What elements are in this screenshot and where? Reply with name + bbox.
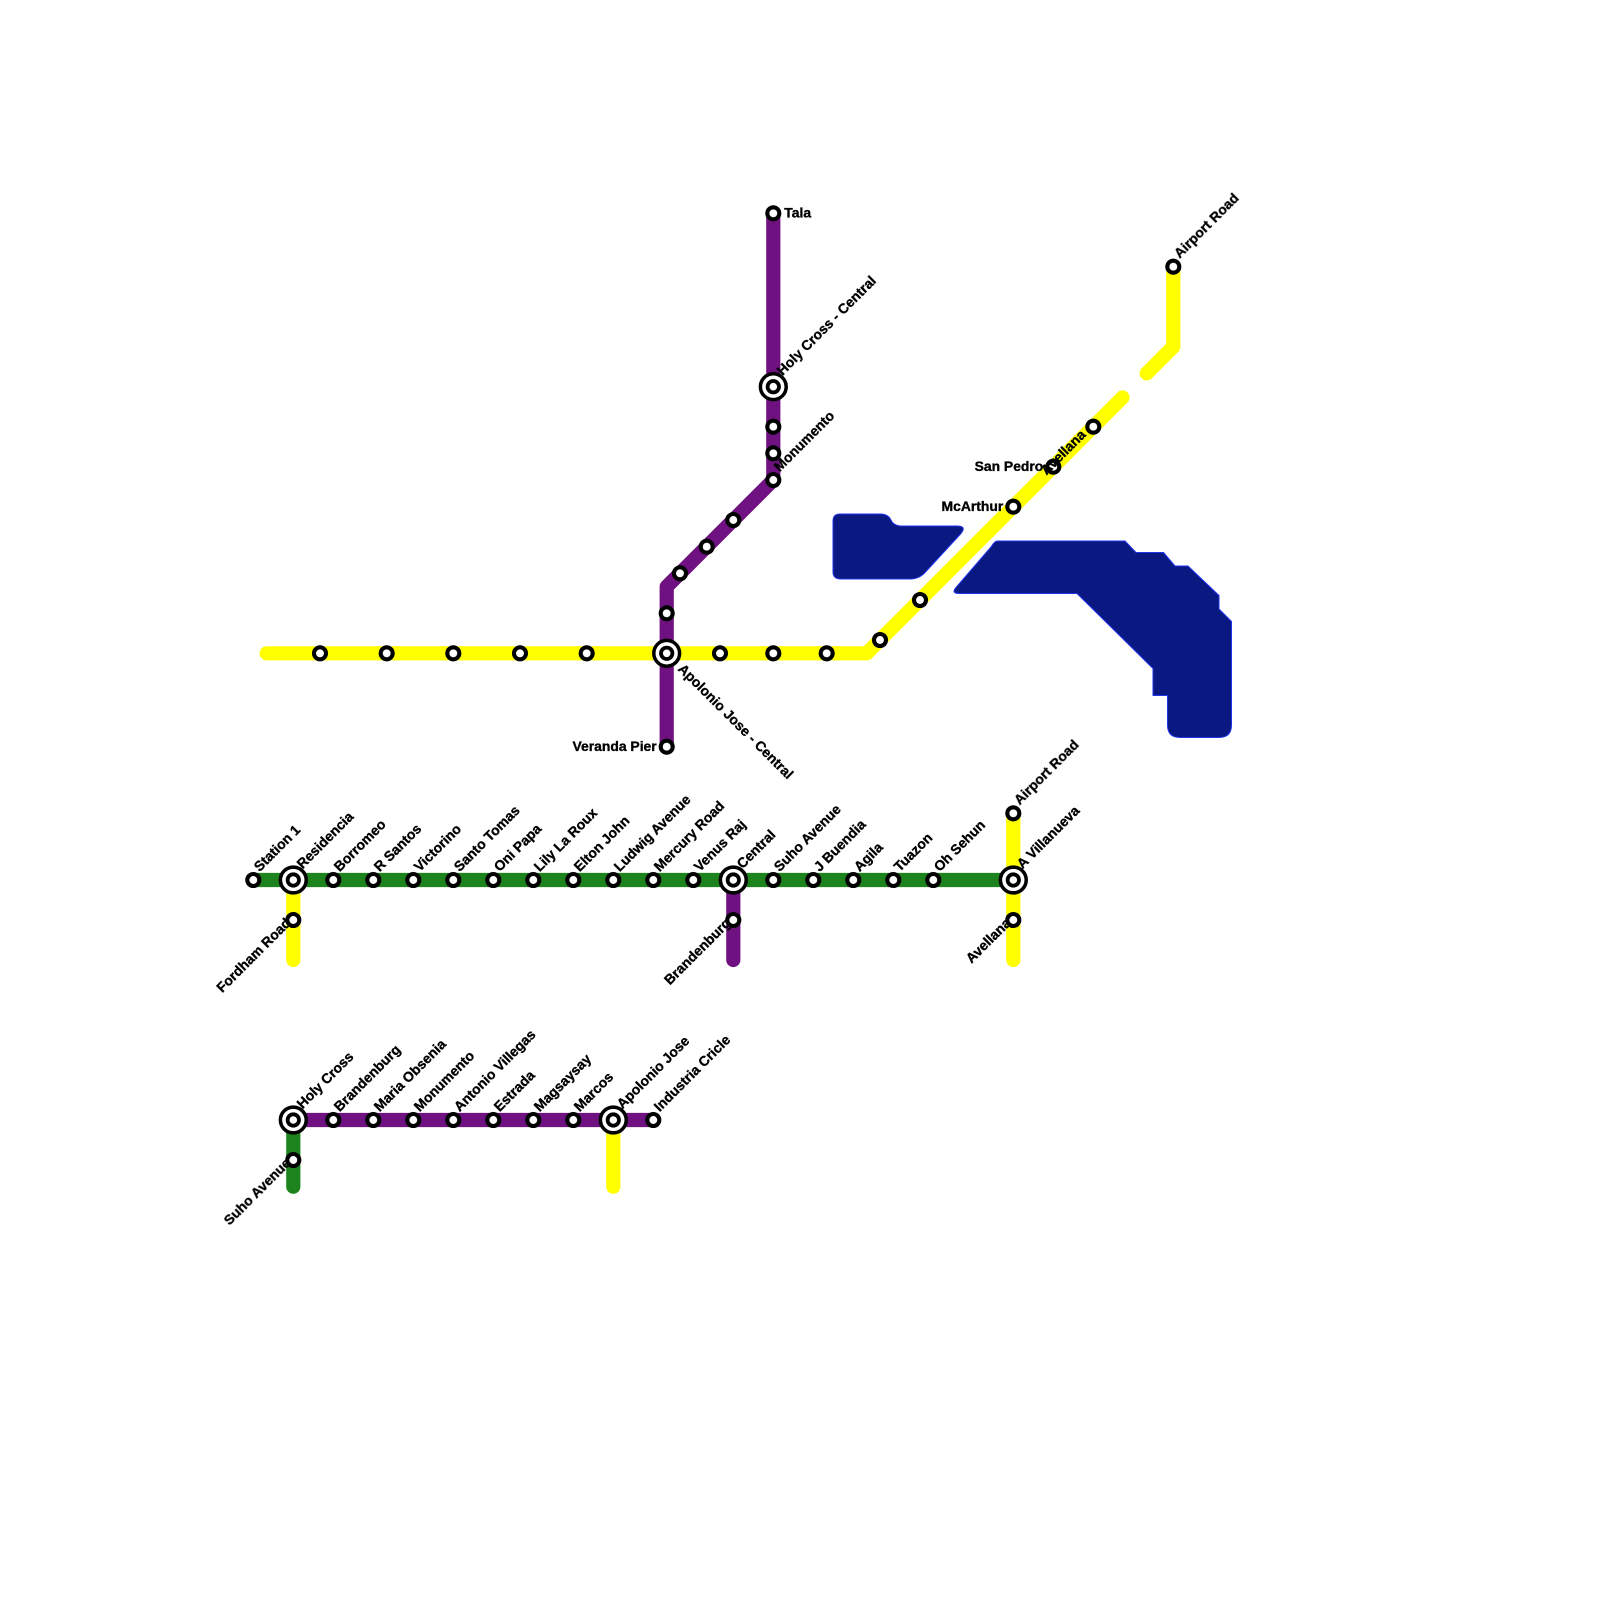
purple stub below Central (Brandenburg branch)	[726, 880, 740, 960]
station	[527, 1114, 539, 1126]
station	[447, 1114, 459, 1126]
station	[567, 874, 579, 886]
interchange Apolonio Jose	[600, 1107, 626, 1133]
station	[447, 874, 459, 886]
station Tala	[767, 207, 779, 219]
station	[767, 421, 779, 433]
yellow stub at A Villanueva (Airport Road - Avellana)	[1006, 813, 1020, 960]
station	[381, 647, 393, 659]
station	[847, 874, 859, 886]
station	[914, 594, 926, 606]
yellow line: main west-east route	[267, 398, 1123, 654]
station	[327, 874, 339, 886]
station	[714, 647, 726, 659]
station	[687, 874, 699, 886]
station	[887, 874, 899, 886]
station	[567, 1114, 579, 1126]
water: bay west polygon	[833, 514, 963, 579]
interchange Holy Cross - Central	[760, 374, 786, 400]
station Station 1	[247, 874, 259, 886]
station	[701, 541, 713, 553]
station San Pedro	[1047, 461, 1059, 473]
station	[647, 874, 659, 886]
station Airport Road	[1007, 807, 1019, 819]
station McArthur	[1007, 501, 1019, 513]
svg-text:McArthur: McArthur	[942, 498, 1004, 514]
yellow stub at bottom Apolonio Jose	[606, 1120, 620, 1187]
green line: middle horizontal route	[253, 873, 1013, 887]
svg-text:Tala: Tala	[784, 205, 811, 221]
station Industria Cricle	[647, 1114, 659, 1126]
interchange Apolonio Jose - Central	[654, 640, 680, 666]
station	[767, 874, 779, 886]
station Airport Road	[1167, 261, 1179, 273]
station	[367, 874, 379, 886]
station	[487, 1114, 499, 1126]
interchange Central	[720, 867, 746, 893]
station Brandenburg	[727, 914, 739, 926]
yellow line: airport segment	[1147, 267, 1174, 374]
station	[487, 874, 499, 886]
station	[607, 874, 619, 886]
station	[661, 607, 673, 619]
station	[407, 874, 419, 886]
station	[447, 647, 459, 659]
station Suho Avenue	[287, 1154, 299, 1166]
purple line: Tala - Veranda Pier route	[667, 213, 774, 746]
station	[927, 874, 939, 886]
station	[367, 1114, 379, 1126]
interchange Residencia	[280, 867, 306, 893]
station Monumento	[767, 474, 779, 486]
green stub below Holy Cross (Suho Avenue branch)	[286, 1120, 300, 1187]
station Avellana	[1087, 421, 1099, 433]
station	[581, 647, 593, 659]
station	[807, 874, 819, 886]
station	[767, 647, 779, 659]
station	[314, 647, 326, 659]
station Veranda Pier	[661, 741, 673, 753]
water: bay east polygon	[954, 541, 1231, 738]
station	[327, 1114, 339, 1126]
svg-text:San Pedro: San Pedro	[975, 458, 1044, 474]
interchange A Villanueva	[1000, 867, 1026, 893]
svg-text:Veranda Pier: Veranda Pier	[573, 738, 658, 754]
station	[874, 634, 886, 646]
station Avellana	[1007, 914, 1019, 926]
station Fordham Road	[287, 914, 299, 926]
station	[514, 647, 526, 659]
yellow stub at Residencia (Fordham Road branch)	[286, 880, 300, 960]
station	[674, 567, 686, 579]
station	[821, 647, 833, 659]
interchange Holy Cross	[280, 1107, 306, 1133]
station	[527, 874, 539, 886]
purple line: bottom horizontal route	[293, 1113, 653, 1127]
station	[767, 447, 779, 459]
station	[407, 1114, 419, 1126]
station	[727, 514, 739, 526]
